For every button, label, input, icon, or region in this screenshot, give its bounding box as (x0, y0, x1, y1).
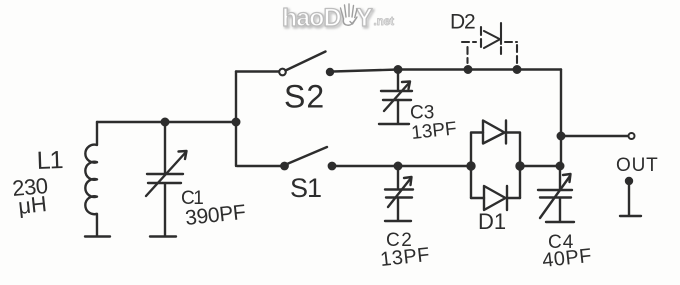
wire right vertical (560, 70, 562, 167)
svg-text:L1: L1 (36, 146, 63, 175)
node D1 left (468, 163, 475, 170)
svg-text:Y: Y (356, 4, 373, 32)
ground C2 (385, 220, 411, 222)
wire top-left horizontal (97, 121, 236, 123)
diode D1 pair (471, 121, 520, 211)
svg-text:390PF: 390PF (184, 201, 246, 230)
wire S2 row to right corner (398, 68, 561, 70)
ground C1 (150, 235, 176, 237)
ground L1 (85, 235, 110, 237)
node D2 right (514, 66, 521, 73)
node top wire right (233, 119, 240, 126)
wire D1 right to C4 (520, 165, 561, 167)
capacitor C4 (538, 166, 572, 221)
node D1 right (517, 163, 524, 170)
svg-text:.net: .net (374, 16, 395, 28)
node top wire C1 (162, 119, 169, 126)
svg-text:40PF: 40PF (541, 245, 593, 272)
inductor L1 (85, 122, 97, 236)
svg-text:13PF: 13PF (379, 244, 431, 271)
OUT terminal circle (629, 133, 635, 139)
diode D2 dashed (462, 23, 517, 63)
capacitor C3 (381, 70, 412, 124)
node D2 left (465, 66, 472, 73)
capacitor C2 (385, 166, 413, 220)
svg-text:D2: D2 (450, 11, 475, 34)
node S1 row C2 junction (395, 163, 402, 170)
node S2 row C3 junction (395, 66, 402, 73)
svg-text:OUT: OUT (616, 155, 659, 176)
node C4 top (557, 163, 564, 170)
svg-text:D1: D1 (478, 209, 506, 234)
OUT terminal post (620, 178, 641, 216)
node OUT tap (558, 133, 565, 140)
ground C4 (546, 221, 574, 223)
svg-text:S1: S1 (290, 173, 321, 203)
svg-text:μH: μH (17, 191, 48, 219)
switch S1 (237, 147, 471, 169)
capacitor C1 (146, 122, 187, 236)
wire OUT tap (561, 135, 628, 137)
switch S2 (236, 52, 398, 76)
svg-text:13PF: 13PF (410, 118, 457, 144)
ground C3 (379, 123, 409, 125)
svg-text:S2: S2 (284, 79, 325, 115)
svg-text:haoD: haoD (282, 4, 341, 32)
wire vertical connector (235, 72, 237, 167)
